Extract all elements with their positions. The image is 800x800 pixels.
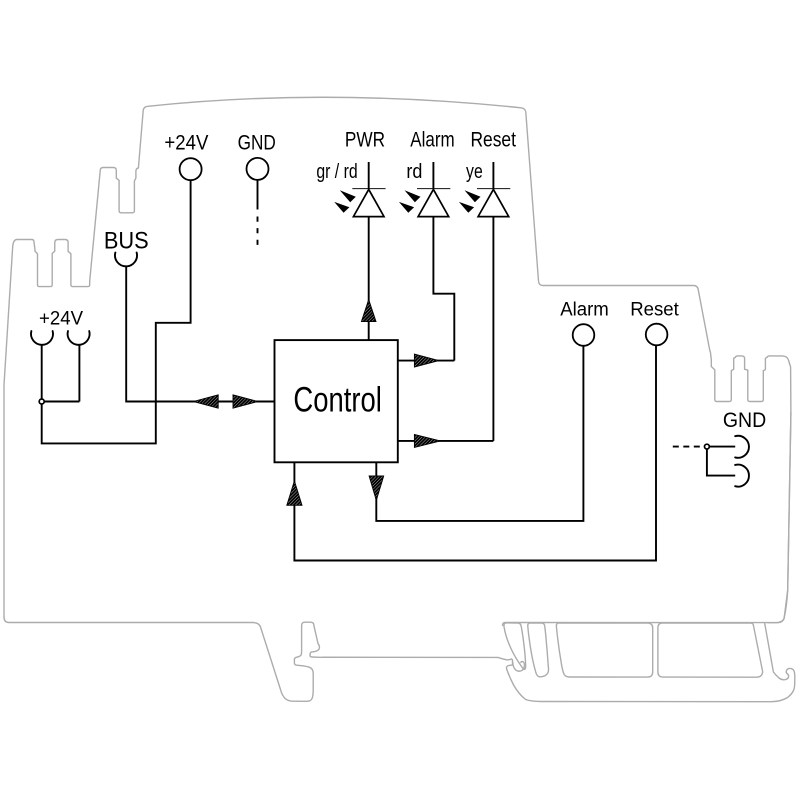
clamp terminal BUS [115, 253, 137, 267]
LED PWR [334, 162, 385, 217]
terminal circle +24V top [180, 158, 202, 180]
svg-text:Reset: Reset [470, 129, 516, 152]
svg-text:PWR: PWR [345, 129, 385, 152]
terminal circle Reset right [646, 324, 668, 346]
wire Control bottom to Alarm terminal [376, 346, 583, 521]
clamp terminal GND right B [735, 465, 749, 487]
svg-text:Alarm: Alarm [410, 129, 454, 152]
svg-text:GND: GND [723, 409, 766, 432]
Control box U1 [275, 340, 398, 462]
housing foot bottom left with rail clip [4, 617, 795, 702]
clamp terminal GND right A [735, 436, 749, 458]
foot cutout 3 [556, 623, 652, 677]
housing outline left and top profile [4, 97, 795, 701]
terminal circle GND top [247, 158, 269, 180]
svg-text:+24V: +24V [164, 131, 208, 155]
wire Reset LED down to Control output [398, 217, 494, 441]
arrow up to PWR LED [361, 300, 376, 322]
terminal circle Alarm right [573, 324, 595, 346]
svg-text:GND: GND [238, 131, 276, 155]
arrow right to Reset LED wire [414, 434, 440, 447]
housing right edge and foot top edge [503, 413, 791, 626]
wire +24V top terminal to junction [42, 180, 191, 443]
arrow down from Control bottom [369, 476, 384, 500]
LED Reset [459, 162, 510, 217]
svg-text:gr / rd: gr / rd [316, 160, 357, 182]
arrow left on bus line [193, 395, 218, 408]
foot cutout 2 [528, 623, 549, 677]
svg-text:rd: rd [406, 161, 422, 183]
svg-text:ye: ye [466, 160, 483, 182]
node junction GND right [705, 444, 710, 449]
wire GND right node to clamps [707, 447, 735, 476]
rail clip hook [513, 661, 525, 671]
wire Control top to PWR LED [368, 217, 370, 341]
wire node to terminal B [42, 345, 80, 401]
svg-text:Control: Control [293, 379, 381, 419]
svg-text:BUS: BUS [104, 226, 149, 253]
wire BUS down and main horizontal to Control [126, 267, 274, 402]
arrow right to Alarm LED wire [414, 354, 438, 367]
foot cutout 4 [658, 623, 763, 677]
wire Alarm LED down-right to Control output [398, 217, 455, 361]
svg-text:+24V: +24V [39, 308, 83, 330]
arrow up into Control bottom [287, 481, 302, 505]
svg-text:Reset: Reset [630, 299, 679, 321]
wire Control bottom to Reset terminal [294, 346, 656, 561]
wire left +24V terminal A down to node [41, 345, 43, 399]
LED Alarm [399, 162, 450, 217]
clamp terminal +24V left A [31, 331, 53, 345]
wire GND right dashed [673, 446, 704, 448]
clamp terminal +24V left B [68, 331, 90, 345]
arrow right on bus line [233, 395, 258, 408]
node junction left [39, 399, 44, 404]
wire GND top dashed [257, 180, 259, 210]
foot cutout 1 [504, 623, 526, 669]
svg-text:Alarm: Alarm [560, 299, 609, 321]
